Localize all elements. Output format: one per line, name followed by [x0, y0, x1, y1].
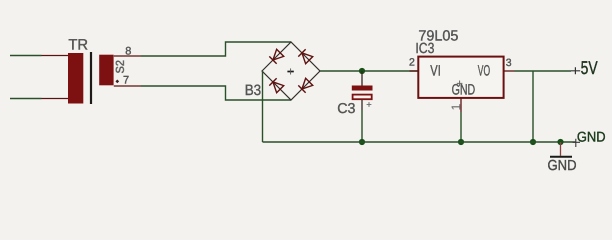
transformer secondary pin 8 stub	[114, 55, 141, 57]
svg-text:B3: B3	[245, 82, 262, 99]
node junction branch gnd	[530, 139, 536, 145]
capacitor C3 top plate	[352, 86, 373, 91]
IC3 pin 3 stub	[504, 70, 515, 72]
wire C3 to gnd rail	[361, 110, 363, 142]
svg-text:TR: TR	[68, 36, 88, 53]
diode D-topleft	[269, 49, 284, 64]
capacitor C3 bottom plate	[353, 95, 372, 100]
svg-text:7: 7	[123, 74, 129, 86]
svg-text:IC3: IC3	[415, 41, 434, 57]
capacitor C3 bottom pin	[361, 100, 363, 110]
capacitor C3 top pin	[361, 71, 363, 86]
svg-text:S2: S2	[115, 60, 127, 74]
wire input bottom	[10, 98, 42, 100]
diode D-topright	[298, 49, 313, 64]
node junction C3 bottom	[359, 139, 365, 145]
svg-text:VI: VI	[430, 63, 441, 80]
regulator IC3 box	[418, 57, 503, 98]
wire bridge plus to IC	[320, 70, 419, 72]
wire VO branch down	[532, 71, 534, 142]
bridge plus mark	[287, 71, 293, 73]
ground symbol stub	[560, 142, 562, 156]
transformer TR core	[90, 52, 92, 104]
wire input top	[10, 55, 42, 57]
capacitor C3 plus mark	[367, 102, 372, 107]
IC3 pin 2 stub	[410, 70, 419, 72]
transformer secondary pin 7 stub	[114, 85, 141, 87]
IC3 pin 1 stub	[460, 98, 462, 112]
transformer TR secondary winding	[99, 55, 113, 86]
wire gnd rail	[263, 141, 576, 143]
diode D-bottomleft	[269, 78, 284, 93]
wire pin8 to bridge top	[141, 42, 291, 56]
bridge diamond	[262, 42, 320, 100]
svg-text:C3: C3	[337, 101, 355, 117]
svg-text:GND: GND	[548, 158, 577, 174]
transformer TR primary pin bottom	[42, 98, 70, 100]
node junction pin1 gnd	[458, 139, 464, 145]
transformer TR primary winding	[68, 53, 83, 104]
wire VO to 5V	[515, 70, 572, 72]
svg-text:5V: 5V	[581, 57, 598, 78]
node junction gnd symbol	[557, 139, 563, 145]
wire pin1 to gnd rail	[460, 112, 462, 142]
svg-text:GND: GND	[452, 81, 476, 98]
IC3 origin cross	[457, 81, 463, 87]
svg-text:2: 2	[409, 56, 415, 68]
ground symbol bar	[550, 156, 572, 158]
supply +5V cross	[571, 67, 580, 74]
svg-text:VO: VO	[478, 63, 490, 80]
wire pin7 to bridge bottom	[141, 86, 291, 100]
wire bridge minus down	[262, 71, 264, 142]
transformer polarity dot	[115, 80, 119, 84]
net label GND cross	[573, 139, 581, 147]
svg-text:GND: GND	[577, 128, 606, 144]
transformer TR primary pin top	[42, 55, 70, 57]
diode D-bottomright	[298, 78, 313, 93]
node junction C3 top	[359, 68, 365, 74]
svg-text:3: 3	[506, 57, 512, 69]
